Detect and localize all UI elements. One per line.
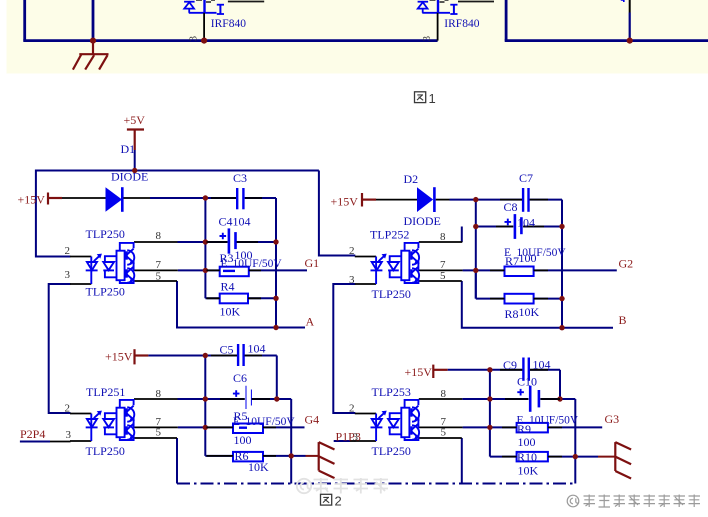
svg-text:8: 8	[156, 230, 162, 242]
wire: +15V row with C9 to corner (module 4)	[448, 369, 560, 371]
transistor Q2 IRF840 (partial, cut at top)	[418, 0, 458, 14]
resistor R4	[220, 294, 248, 304]
svg-text:8: 8	[156, 388, 162, 400]
wire: right bus of module 1	[275, 198, 277, 328]
svg-text:TLP251: TLP251	[86, 385, 125, 399]
svg-text:TLP250: TLP250	[372, 444, 411, 458]
svg-text:+5V: +5V	[124, 113, 146, 127]
wire: fig1 black stub top (Q2 gate net)	[458, 1, 494, 3]
capacitor C4 (electrolytic)	[220, 228, 236, 253]
svg-text:IRF840: IRF840	[444, 18, 479, 30]
power +15V symbol (module 2)	[135, 349, 149, 364]
svg-text:D2: D2	[404, 172, 419, 186]
wire: left bus of module 4	[489, 370, 491, 457]
wire: R6 row to ground	[205, 455, 305, 457]
svg-text:2: 2	[349, 402, 355, 414]
junction (489.9,427.4)	[487, 425, 492, 430]
wire: component pin leads (black) module 4	[500, 370, 562, 457]
watermark faint	[297, 478, 388, 494]
power +15V symbol (module 1)	[48, 193, 62, 205]
junction (276,242)	[273, 239, 278, 244]
wire: D1 cathode row to C3 and right bus	[150, 197, 276, 199]
svg-text:G4: G4	[305, 412, 320, 426]
wire: C9 corner down to pin8 row	[559, 370, 561, 399]
svg-text:10K: 10K	[220, 305, 241, 319]
wire: +15V row with C5 to corner	[148, 355, 276, 357]
svg-text:5: 5	[156, 426, 162, 438]
svg-text:R6: R6	[235, 449, 249, 463]
svg-text:+15V: +15V	[105, 349, 133, 363]
capacitor C10 (electrolytic)	[517, 386, 539, 412]
wire: R10 row to ground	[490, 456, 598, 458]
svg-text:E: E	[221, 258, 228, 270]
wire: top rail and left rail to pin2 of U1	[36, 171, 319, 257]
wire: rail from U3 pin3 down to U4 pin2	[333, 284, 355, 413]
wire: R4 row	[205, 297, 276, 299]
svg-text:2: 2	[335, 493, 342, 508]
junction (205.4,270.4)	[203, 268, 208, 273]
wire: component pin leads (black) module 2	[207, 356, 277, 456]
resistor R7	[505, 267, 534, 277]
wire: left bus of module 3	[475, 200, 477, 299]
resistor R8	[505, 294, 534, 304]
svg-text:104: 104	[533, 357, 551, 371]
ground (fig1 earth symbol)	[73, 41, 109, 70]
wire: component pin leads (black) module 1	[207, 198, 263, 298]
svg-text:TLP250: TLP250	[86, 227, 125, 241]
junction (205.3,399)	[203, 396, 208, 401]
junction (562,226.5)	[559, 224, 564, 229]
resistor R3	[220, 267, 249, 277]
svg-text:+15V: +15V	[331, 194, 359, 208]
wire: U1 pin5 down to node A row	[177, 281, 305, 328]
svg-text:E: E	[233, 416, 240, 428]
wire: fig1 black stub top (Q1 gate net)	[228, 1, 264, 3]
svg-text:C4104: C4104	[219, 215, 251, 229]
junction (489.9,399)	[487, 396, 492, 401]
svg-text:G1: G1	[305, 256, 320, 270]
wire: fig1 bottom bus right	[505, 39, 708, 42]
svg-text:5: 5	[440, 270, 446, 282]
op-amp U2 TLP251	[70, 399, 178, 441]
wire: fig1 ground branch vertical	[92, 0, 95, 41]
diode D1	[62, 187, 150, 212]
power +15V symbol (module 3)	[362, 193, 376, 207]
wire: U4 pin8 row	[462, 398, 575, 400]
pin 3 lead of Q1 (source pin, black)	[203, 13, 205, 41]
wire: rail from U1 pin3 down to U2 pin2	[49, 284, 71, 413]
op-amp U4 TLP253	[355, 399, 463, 441]
svg-text:R8: R8	[505, 307, 519, 321]
svg-text:104: 104	[517, 215, 535, 229]
junction (291.2,455.9)	[289, 453, 294, 458]
svg-text:C3: C3	[233, 171, 247, 185]
capacitor C3	[237, 188, 243, 209]
wire: C5 corner down to pin8 row	[276, 356, 278, 400]
wire: top rail corner down to U3 pin2	[319, 171, 355, 256]
svg-text:TLP250: TLP250	[372, 287, 411, 301]
svg-text:100: 100	[234, 433, 252, 447]
wire: dark red lead to ground (module 4)	[598, 456, 615, 458]
svg-text:TLP250: TLP250	[86, 284, 125, 298]
wire: right bus of module 3	[561, 200, 563, 328]
wire: right bus 2 of module 4 down to dash line	[574, 399, 576, 484]
svg-text:104: 104	[248, 342, 266, 356]
power +15V symbol (module 4)	[433, 365, 447, 378]
svg-text:P2P4: P2P4	[20, 427, 45, 441]
wire: U4 pin5 down to dash line	[461, 438, 463, 484]
junction (205.3,355.5)	[203, 353, 208, 358]
junction (134.7,170.5)	[132, 168, 137, 173]
svg-text:A: A	[306, 314, 315, 328]
svg-text:3: 3	[422, 36, 433, 41]
resistor R6	[233, 452, 263, 462]
caption 图2	[321, 494, 332, 505]
svg-text:IRF840: IRF840	[211, 18, 246, 30]
junction (204.1,40.6)	[201, 38, 207, 44]
junction (276,298.3)	[273, 296, 278, 301]
svg-text:8: 8	[440, 231, 446, 243]
svg-text:8: 8	[441, 388, 447, 400]
wire: dash-dot bottom line	[177, 483, 575, 485]
diode D2	[376, 187, 450, 212]
ground (module 4 power ground)	[615, 442, 631, 478]
wire: right bus 2 of module 2 down to dash line	[290, 399, 292, 484]
capacitor C9	[523, 358, 528, 381]
capacitor C6 (electrolytic)	[233, 386, 252, 409]
svg-text:R4: R4	[221, 279, 235, 293]
junction (562,298.6)	[559, 296, 564, 301]
junction (93,40.6)	[90, 38, 96, 44]
svg-text:10UF/50V: 10UF/50V	[529, 414, 579, 426]
capacitor C5	[238, 344, 244, 366]
resistor R5	[233, 424, 263, 434]
op-amp U3 TLP252	[355, 242, 463, 284]
wire: U2 pin7 row to G4	[178, 426, 305, 428]
junction (475.8,226.5)	[473, 224, 478, 229]
svg-text:TLP250: TLP250	[86, 444, 125, 458]
svg-text:C5: C5	[220, 342, 234, 356]
svg-text:10K: 10K	[518, 463, 539, 477]
transistor Q1 IRF840 (partial, cut at top)	[184, 0, 224, 14]
svg-text:5: 5	[441, 426, 447, 438]
capacitor C8 (electrolytic)	[505, 214, 522, 239]
svg-text:G3: G3	[605, 412, 620, 426]
junction (562,327.7)	[559, 325, 564, 330]
wire: U4 pin7 row to G3	[463, 426, 603, 428]
capacitor C7	[523, 188, 528, 212]
svg-text:10K: 10K	[248, 460, 269, 474]
wire: C8 row	[476, 226, 562, 228]
svg-text:R10: R10	[517, 450, 537, 464]
svg-text:TLP252: TLP252	[370, 227, 409, 241]
wire: component pin leads (black) module 3	[490, 200, 548, 299]
op-amp U1 TLP250	[70, 242, 178, 284]
svg-text:3: 3	[349, 274, 355, 286]
pin 3 lead of Q2 (source pin, black)	[437, 13, 439, 41]
junction (475.8,199.6)	[473, 197, 478, 202]
svg-text:D1: D1	[121, 142, 136, 156]
label fragments above Q2	[430, 0, 449, 2]
svg-text:1: 1	[429, 91, 436, 106]
wire: R8 row	[476, 270, 562, 298]
wire: U1 pin7 row to G1	[178, 269, 307, 271]
svg-text:C10: C10	[517, 374, 537, 388]
junction (205.4,242)	[203, 239, 208, 244]
junction (489.9,369.8)	[487, 367, 492, 372]
junction (629.7,40.6)	[627, 38, 633, 44]
svg-text:C8: C8	[504, 200, 518, 214]
wire: +5V stem to top rail	[134, 150, 136, 171]
wire: U2 pin8 row	[178, 398, 292, 400]
watermark 稀土掘金技术社区	[567, 495, 700, 508]
junction (560,399)	[557, 396, 562, 401]
svg-text:B: B	[619, 313, 627, 327]
wire: P2P4 net into U2 pin3	[20, 441, 71, 443]
svg-text:100: 100	[519, 251, 537, 265]
svg-text:2: 2	[349, 245, 355, 257]
wire: P1P3 net into U4 pin3	[334, 440, 356, 442]
svg-text:DIODE: DIODE	[111, 170, 148, 184]
power +5V symbol	[127, 130, 144, 151]
wire: U3 pin5 down to node B row	[462, 281, 613, 328]
svg-text:C6: C6	[233, 371, 247, 385]
wire: U1 pin8 row	[178, 241, 277, 243]
svg-text:2: 2	[65, 402, 71, 414]
svg-text:R7: R7	[505, 254, 519, 268]
svg-text:2: 2	[65, 245, 71, 257]
svg-text:+15V: +15V	[18, 193, 46, 207]
junction (205.3,427.4)	[203, 425, 208, 430]
caption 图1	[415, 92, 426, 103]
junction (575.3,456.6)	[573, 454, 578, 459]
svg-text:10UF/50V: 10UF/50V	[246, 416, 296, 428]
junction (276,327.5)	[273, 325, 278, 330]
label fragments above Q1	[196, 0, 215, 2]
svg-text:3: 3	[65, 269, 71, 281]
svg-text:5: 5	[156, 270, 162, 282]
wire: fig1 left vertical	[23, 0, 26, 41]
svg-text:TLP253: TLP253	[372, 385, 411, 399]
svg-text:DIODE: DIODE	[404, 214, 441, 228]
wire: fig1 bottom bus left	[23, 39, 437, 42]
resistor R10	[517, 452, 548, 462]
svg-text:10K: 10K	[519, 305, 540, 319]
svg-text:3: 3	[66, 429, 72, 441]
svg-text:R9: R9	[517, 422, 531, 436]
wire: D2 cathode row with C7 to right bus corner	[450, 199, 563, 201]
wire: fig1 right mosfet source drop	[621, 0, 630, 41]
svg-text:G2: G2	[619, 256, 634, 270]
junction (276.8,399)	[274, 396, 279, 401]
junction (205.4,198)	[203, 195, 208, 200]
svg-text:C9: C9	[503, 358, 517, 372]
wire: fig1 right box vertical	[505, 0, 508, 41]
figure 1 schematic background	[7, 0, 708, 74]
wire: dark red lead to ground (module 2)	[306, 455, 319, 457]
resistor R9	[517, 423, 548, 433]
svg-text:C7: C7	[519, 171, 533, 185]
svg-text:7: 7	[156, 259, 162, 271]
junction (475.8,270.4)	[473, 268, 478, 273]
wire: U3 pin7 row to G2	[463, 269, 617, 271]
wire: left bus of module 2	[204, 356, 206, 456]
wire: left bus of module 1	[204, 198, 206, 298]
ground (module 2 power ground)	[319, 442, 335, 478]
svg-text:3: 3	[189, 36, 200, 41]
wire: U2 pin5 down to dash line	[176, 438, 178, 484]
wire: U3 pin8 jog up to C8 row	[461, 227, 463, 243]
svg-text:10UF/50V: 10UF/50V	[233, 258, 283, 270]
svg-text:+15V: +15V	[405, 365, 433, 379]
svg-text:3: 3	[353, 431, 359, 443]
svg-text:100: 100	[518, 435, 536, 449]
